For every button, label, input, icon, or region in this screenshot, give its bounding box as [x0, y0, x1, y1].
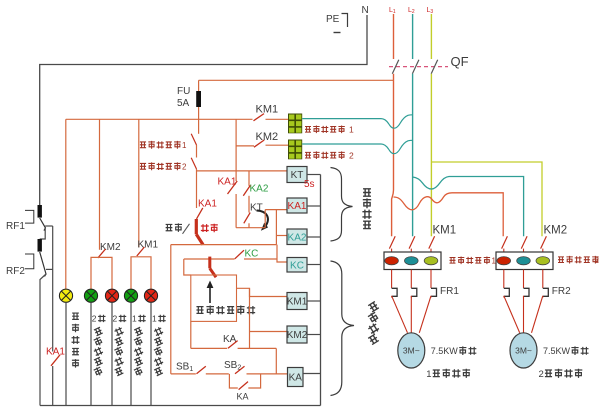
wire KM1 to FR1 [391, 270, 393, 289]
selector auto bar [195, 219, 198, 234]
svg-text:3M~: 3M~ [403, 346, 420, 356]
contact KM1 lamp blade [137, 247, 145, 256]
svg-text:KM1: KM1 [433, 225, 457, 237]
wire between aux contacts [196, 145, 198, 158]
three-phase protector module 2 [496, 252, 553, 270]
svg-text:KM2: KM2 [256, 131, 279, 143]
contact RF1 blade [40, 218, 46, 231]
contact KA2 blade [243, 185, 250, 195]
wire KC row left [184, 258, 235, 260]
wire feeder drop [235, 119, 237, 181]
svg-text:KA1: KA1 [46, 347, 65, 358]
wire left drop to SB row [170, 245, 172, 374]
svg-text:1: 1 [492, 257, 497, 266]
fault indicator lamp return wire [65, 302, 67, 405]
fault indicator lamp [59, 289, 72, 302]
wire coil stub 3 [307, 236, 321, 238]
breaker QF pole 1 [392, 60, 399, 74]
svg-text:KA: KA [289, 373, 303, 384]
relay coil KA [288, 368, 304, 387]
wire L3 branch to KM2 [431, 162, 542, 236]
thermal relay FR1 [392, 288, 398, 296]
wire coil stub 4 [307, 264, 321, 266]
thermal relay RF2 symbol [25, 254, 34, 269]
wire SB row a [171, 373, 196, 375]
relay coil KA2 [287, 229, 307, 245]
wire RF1 to RF2 [40, 228, 46, 239]
wire KT feed [197, 170, 288, 172]
svg-text:QF: QF [451, 54, 469, 69]
label fault indicator [72, 313, 79, 319]
wire RF2 down drop [40, 274, 46, 406]
svg-text:L3: L3 [427, 7, 434, 15]
label manual [166, 224, 173, 230]
relay coil KM2 [287, 326, 307, 343]
breaker QF pole 3 [431, 60, 438, 74]
svg-text:3M~: 3M~ [515, 346, 532, 356]
contact manual blade [183, 224, 190, 234]
svg-text:7.5KW: 7.5KW [431, 346, 459, 356]
wire N line [40, 15, 367, 205]
svg-text:KT: KT [291, 170, 304, 181]
contact KA1 mid blade [197, 208, 203, 219]
wire between KA2 and KT contacts [248, 196, 250, 213]
relay coil KC [287, 258, 307, 273]
wire L2 upper [412, 14, 414, 59]
wire L2 branch to KM2 [413, 177, 524, 237]
contact protector2 aux blade [191, 158, 196, 169]
svg-text:KM1: KM1 [138, 240, 159, 251]
thermal relay RF1 symbol [25, 210, 34, 223]
svg-text:KC: KC [245, 249, 259, 260]
wire bottom return bus [40, 405, 321, 407]
wire KM2 aux [236, 145, 254, 147]
wire protector2 output to L2 [302, 140, 412, 153]
wire drop to auto wire [275, 210, 277, 245]
label auto [201, 224, 209, 232]
wire KM2 to FR2 [503, 270, 505, 289]
wire FR1 to motor 1 [392, 296, 408, 333]
svg-text:1: 1 [182, 141, 187, 150]
button SB2 blade [235, 366, 245, 374]
breaker QF dashed link [389, 66, 448, 68]
contact KA1 upper blade [228, 181, 238, 194]
wire FR2 to motor 2 [504, 296, 520, 333]
wire coil stub 7 [303, 373, 321, 375]
wire protector1 output to L2 [302, 115, 412, 128]
wire L1 branch to KM2 [394, 193, 504, 237]
svg-text:1: 1 [132, 314, 137, 324]
wire RF1 out jog [45, 225, 53, 227]
svg-text:KA2: KA2 [250, 183, 269, 194]
svg-text:7.5KW: 7.5KW [543, 346, 571, 356]
pump1 run lamp return wire [130, 302, 132, 405]
pump2 run lamp return wire [90, 302, 92, 405]
wire SB row b [206, 373, 229, 375]
pump2 stop lamp return wire [111, 302, 113, 405]
contact protector1 aux blade [191, 134, 196, 145]
wire coil stub 5 [307, 300, 321, 302]
fuse RF2 bar [38, 239, 42, 252]
wire below KT contact [248, 223, 250, 227]
wire KC coil feed [277, 245, 287, 262]
wire KA bypass loop right [248, 374, 260, 388]
contact KC blade [235, 250, 244, 259]
svg-text:FR2: FR2 [552, 286, 571, 297]
wire fault branch vertical [52, 226, 54, 352]
svg-text:5A: 5A [177, 98, 190, 109]
wire lamp bus [66, 118, 253, 120]
svg-text:2: 2 [92, 314, 97, 324]
brace protection circuit [331, 168, 353, 242]
wire KM1 lamp fork [131, 257, 151, 289]
wire KC row left drop [184, 259, 191, 275]
svg-text:KC: KC [290, 260, 304, 271]
contact KA bypass blade [239, 382, 248, 390]
wire KM2 lamp feed [99, 119, 101, 250]
svg-text:1: 1 [152, 314, 157, 324]
svg-text:KM2: KM2 [544, 225, 568, 237]
wire KA2 drop [248, 171, 250, 186]
wire KM1 coil feed [237, 288, 288, 296]
pump transfer switch arrow [209, 286, 211, 303]
svg-text:KA2: KA2 [288, 232, 307, 243]
selector pump-switch bar [208, 257, 211, 269]
svg-text:RF2: RF2 [6, 266, 25, 277]
relay coil KM1 [287, 293, 307, 310]
wire KA row left [191, 347, 227, 349]
label protector aux contact 2 [140, 163, 146, 169]
wire coil stub 6 [307, 334, 321, 336]
svg-text:1: 1 [349, 125, 354, 135]
svg-text:RF1: RF1 [6, 221, 25, 232]
svg-text:2: 2 [349, 151, 354, 161]
wire coil stub 2 [307, 205, 321, 207]
device three-phase protector block 1 [288, 114, 302, 134]
wire right return bus [320, 175, 322, 406]
contactor KM1 pole blades [389, 236, 395, 248]
pump2 stop lamp [105, 289, 118, 302]
wire below KA1 contact [235, 194, 237, 228]
device three-phase protector block 2 [288, 140, 302, 160]
wire L1 upper [393, 14, 395, 59]
pump transfer switch box [191, 275, 237, 321]
wire coil feeder vertical [249, 288, 251, 348]
svg-text:N: N [362, 5, 369, 16]
selector pump-switch blade [210, 268, 216, 277]
contact KT delay arc symbol [257, 211, 268, 228]
wire below FU [198, 107, 200, 134]
relay coil KA1 [287, 198, 307, 213]
pump1 run lamp [124, 289, 137, 302]
wire coil stub 1 [307, 174, 321, 176]
thermal relay FR2 [504, 288, 510, 296]
pump1 stop lamp return wire [150, 302, 152, 405]
contactor KM2 pole blades [502, 236, 508, 248]
contact KM2 lamp blade [98, 249, 106, 258]
label protection circuit [363, 189, 371, 196]
wire to protector block 2 [266, 144, 289, 146]
wire KA row right [238, 347, 277, 349]
contact KM2 aux blade [254, 140, 264, 147]
label protector module 1 [450, 258, 456, 264]
wire KA1 coil feed [265, 209, 287, 211]
wire L3 vertical [430, 74, 432, 237]
svg-text:2: 2 [182, 163, 187, 172]
wire KT branch bottom [236, 227, 265, 229]
wire fault lamp feed [65, 119, 67, 289]
svg-text:KA1: KA1 [288, 201, 307, 212]
wire below aux contacts [196, 169, 198, 208]
wire KM1 lamp feed [138, 119, 140, 247]
svg-text:FR1: FR1 [440, 286, 459, 297]
svg-text:2: 2 [539, 369, 544, 380]
pump1 stop lamp [144, 289, 157, 302]
wire riser to KA1 coil [264, 210, 266, 228]
wire KA2 coil feed [276, 235, 287, 237]
wire FU drop [198, 80, 200, 91]
contact RF2 blade [40, 252, 46, 277]
label three-phase protector 2 [305, 152, 311, 158]
wire SB row c [247, 373, 288, 375]
selector auto blade [196, 234, 203, 244]
svg-text:KA1: KA1 [198, 199, 217, 210]
motor 2 3M [510, 333, 537, 368]
fuse on N line [38, 205, 42, 218]
fuse FU body [196, 91, 201, 107]
svg-text:2: 2 [595, 256, 600, 265]
svg-text:KM1: KM1 [256, 104, 279, 116]
wire drop to KA coil row [275, 348, 277, 374]
label protector aux contact 1 [140, 142, 146, 148]
svg-text:KM2: KM2 [287, 330, 308, 341]
svg-text:KM1: KM1 [287, 297, 308, 308]
wire KA bypass loop [229, 374, 237, 388]
contact KM1 aux blade [254, 114, 265, 121]
wire L3 upper [430, 14, 432, 59]
label pump transfer switch [196, 307, 203, 314]
button SB1 blade [197, 366, 206, 374]
contact KA blade [228, 341, 238, 349]
contact KT delayed blade [244, 213, 250, 224]
svg-text:L1: L1 [389, 7, 396, 15]
svg-text:1: 1 [426, 369, 431, 380]
label main control circuit [368, 301, 379, 311]
three-phase protector module 1 [384, 252, 441, 270]
wire KM2 lamp fork [91, 257, 112, 289]
breaker QF pole 2 [412, 60, 419, 74]
svg-text:KA: KA [237, 392, 249, 402]
wire fault branch lower [52, 366, 54, 406]
brace main control circuit [331, 261, 355, 396]
wire L1 vertical [392, 74, 394, 237]
svg-text:2: 2 [113, 314, 118, 324]
contact KA1 left blade [51, 355, 60, 366]
wire KC row right [244, 258, 277, 260]
wire control feed from L1 [199, 79, 394, 81]
svg-text:FU: FU [177, 86, 190, 97]
wire below pump switch box [190, 321, 192, 348]
wire KM2 coil feed [250, 331, 288, 333]
relay coil KT [287, 167, 307, 183]
label protector module 2 [558, 257, 564, 263]
motor 1 3M [398, 333, 425, 368]
wire to protector block 1 [266, 118, 289, 120]
wire auto row [171, 244, 277, 246]
pump2 run lamp [84, 289, 97, 302]
wire RF2 out jog [46, 268, 53, 270]
svg-text:L2: L2 [408, 7, 415, 15]
wire L2 vertical [412, 74, 414, 237]
svg-text:PE: PE [326, 14, 340, 25]
svg-text:5s: 5s [304, 179, 315, 190]
